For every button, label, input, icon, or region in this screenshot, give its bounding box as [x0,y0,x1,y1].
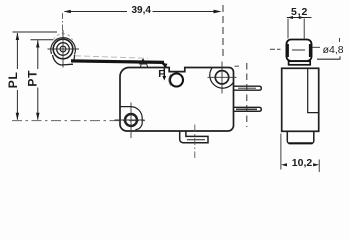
end view body [282,68,319,131]
top-right mounting boss arc [210,68,234,88]
roller free-position dashed arc [54,34,73,40]
bottom terminal centerline [194,125,196,159]
switch body outline [120,68,234,132]
extension centerline at roller x=62.5 [62,13,64,36]
terminal 1 (right upper) [233,86,261,90]
lever faint top edge [75,56,148,59]
diameter label underline [317,58,341,60]
terminal centerline dashed vertical [246,63,248,127]
dimension 10,2 line [281,163,287,166]
roller hub [57,43,70,56]
small edge dash top right [235,65,240,67]
bottom-left mounting boss [120,107,142,130]
roller crosshair [48,48,80,50]
terminal 2 (right lower) [233,107,261,111]
svg-text:39,4: 39,4 [132,5,152,16]
svg-text:10,2: 10,2 [292,157,313,169]
force arrow [163,69,165,78]
end view internal step [308,68,319,112]
bottom terminal slot [187,139,205,141]
roller neck [289,61,311,65]
extension dashed line at x=223 [222,5,224,57]
svg-text:ø4,8: ø4,8 [323,44,344,56]
leader line for diameter [313,46,321,48]
roller end view left edge thick [286,44,289,57]
PT dimension line [31,40,54,120]
plunger [170,74,183,87]
dimension 10,2 extensions [280,134,282,170]
svg-text:PL: PL [6,71,20,88]
lever tip arrow [162,63,167,68]
horizontal mounting centerline [12,120,146,122]
top-right mounting hole [215,71,228,84]
roller end view right edge thick [309,44,312,57]
hinge boss on body [140,64,148,67]
lever hinge tab [139,58,147,64]
lever tip end view dash [270,48,281,50]
roller end view centerline [292,49,305,51]
roller wheel [53,39,73,59]
dimension 5,2 line [287,17,312,19]
dimension 39,4 left arrow [64,10,71,13]
bottom terminal (L-shaped) [180,131,208,143]
dimension 5,2 extensions [287,19,289,39]
lever arm [71,61,164,63]
roller clevis outer arc [51,38,76,55]
roller pin [60,46,66,52]
roller end view outline [287,40,312,62]
svg-text:PT: PT [26,70,40,87]
bottom-left hole crosshair [115,119,145,121]
dimension 39,4 line [65,11,220,13]
bottom-left mounting hole [125,114,137,126]
end view bottom protrusion [287,131,314,143]
dimension 39,4 right arrow [214,10,222,14]
PL dimension line [13,32,58,120]
clevis fork to lever [53,55,74,65]
top-right hole crosshair [208,76,237,78]
lever tip bend [158,62,166,67]
